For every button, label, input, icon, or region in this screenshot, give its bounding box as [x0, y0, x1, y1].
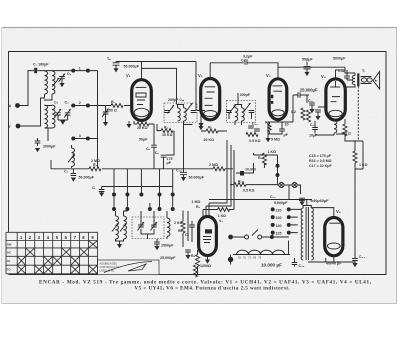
power transformer primary winding	[301, 208, 303, 260]
capacitor 2000pF	[35, 138, 56, 149]
cap C24	[292, 258, 305, 268]
wire V2 top	[210, 63, 244, 79]
T2 coil b	[242, 108, 245, 121]
cap 10000	[236, 163, 256, 176]
ground V3 cathode	[265, 134, 270, 142]
verticals bus to switch row	[114, 169, 173, 195]
tube V2	[198, 73, 220, 120]
wire T2 bottom caps	[229, 113, 252, 125]
resistor right low	[194, 265, 198, 277]
resistor second vertical	[307, 110, 311, 122]
wire V1 plate to T1	[142, 68, 177, 104]
wire transformer top	[303, 200, 311, 209]
wire switch	[233, 235, 289, 237]
wire T1 to V2	[184, 111, 206, 125]
capacitor 1500pF	[154, 239, 174, 250]
switch dot row2 b	[79, 101, 90, 107]
ground V1 cathode	[126, 121, 131, 128]
wire V1 top to bus	[141, 62, 143, 81]
T2 cap right	[244, 103, 254, 113]
resistor 1200 ohm	[191, 254, 211, 268]
capacitor 50000pF top left	[107, 57, 140, 68]
resistor 1k vertical right	[353, 151, 368, 167]
speaker cone	[373, 72, 380, 90]
cap Cn 40+60	[299, 198, 329, 206]
cap C20	[315, 110, 321, 120]
dial lamp 2	[292, 182, 297, 187]
wire bus to transformer	[345, 67, 355, 87]
wire V3 bottom	[268, 120, 293, 134]
switch dot row3 a	[71, 134, 81, 140]
capacitor 50pF	[139, 124, 157, 169]
switch dots row A	[112, 193, 175, 197]
wire row1	[75, 70, 98, 72]
switch dot row3 b	[86, 137, 90, 141]
vertical bus right of switch	[97, 71, 99, 168]
resistor 2 Mohm	[89, 159, 101, 171]
transformer tap dots col1	[271, 207, 275, 234]
wire top mid	[254, 153, 278, 168]
tap labels	[276, 208, 282, 235]
oscillator coil bottom a	[112, 216, 119, 239]
ground for C4	[59, 79, 64, 87]
coupling capacitor 3.2pF	[241, 55, 253, 65]
cap C8 with ground	[92, 186, 104, 197]
wire speaker field down	[357, 87, 359, 142]
wire T to coil L2	[20, 125, 41, 127]
resistor 20k V2	[204, 126, 219, 143]
ground V6	[205, 260, 210, 264]
wire 1k loop	[345, 136, 363, 169]
wire gang	[141, 211, 154, 239]
speaker voice coil rings	[361, 77, 373, 84]
wire taps to transformer	[291, 209, 301, 232]
resistor 1k vert mid	[258, 150, 276, 165]
trimmer C6	[64, 101, 71, 118]
wire res V2	[200, 120, 202, 126]
label 2 Mohm mid	[209, 163, 225, 171]
ground C5 C6	[58, 115, 68, 125]
IF transformer T2 box	[227, 101, 256, 123]
resistor 10 and cap uF	[271, 123, 289, 142]
variable cap CV2	[151, 222, 158, 231]
text block C15 C16 C17	[309, 154, 332, 168]
tube V5	[325, 209, 343, 256]
power transformer secondary winding	[311, 208, 313, 260]
wire long vertical to filter caps	[354, 169, 356, 258]
switch verticals rowA to rowB	[114, 196, 173, 209]
wire coil L1 bottom step	[41, 94, 53, 106]
output transformer	[352, 69, 365, 86]
T1 cap left	[164, 105, 174, 114]
tube V6 magic eye	[199, 217, 224, 256]
resistor 0.5k	[230, 180, 278, 193]
variable cap CV1	[138, 222, 145, 231]
trimmer cap to ground at V1 grid	[102, 106, 109, 127]
ground C2	[71, 178, 76, 182]
power switch	[228, 230, 274, 240]
variable arrow through L1	[53, 78, 60, 87]
junction dots mid	[276, 155, 280, 185]
B+ top bus	[116, 62, 196, 111]
wire coil L1 top	[38, 70, 74, 72]
tuning gang dashed box	[132, 217, 164, 239]
wire T2 top	[235, 93, 242, 108]
ground 2000pF	[35, 148, 40, 152]
output choke coil	[334, 119, 337, 135]
T2 coil a	[235, 108, 238, 121]
switch dots row B	[112, 207, 175, 211]
oscillator coil bottom b	[120, 216, 127, 239]
wire row2	[71, 105, 98, 107]
trimmer C4	[59, 72, 72, 82]
ground osc	[117, 244, 122, 248]
wire transformer to V4 top	[336, 70, 346, 79]
T1 coil a	[178, 108, 181, 121]
antenna coil L2 winding a	[45, 105, 48, 128]
wire L2 verticals	[41, 106, 53, 142]
tube V4	[321, 74, 345, 120]
band table	[6, 232, 98, 274]
capacitor 50000pF mid	[176, 125, 205, 182]
capacitor 10uF	[309, 121, 318, 138]
label 5000uF	[270, 195, 288, 205]
antenna terminal A	[9, 103, 20, 108]
ground cap	[113, 68, 118, 72]
scan page border left line	[1, 28, 3, 304]
schematic frame	[9, 52, 387, 275]
T1 cap right	[186, 103, 196, 113]
resistor 0.5k	[246, 133, 261, 143]
wire cap to V3	[247, 63, 345, 79]
capacitor left of V6	[185, 221, 195, 242]
wire 10k	[157, 124, 174, 155]
ballast resistance wire	[233, 250, 290, 259]
scan page border bottom line	[2, 303, 397, 305]
wire 20k	[134, 121, 154, 124]
oscillator coil with arrow	[68, 145, 75, 168]
capacitor 50pF top right	[302, 58, 313, 72]
trimmer C5	[54, 101, 61, 118]
switch section horizontal link	[102, 186, 173, 188]
transformer core	[306, 207, 308, 260]
transformer tap dots col2	[287, 207, 291, 234]
resistor 2k vertical	[174, 221, 185, 233]
dial lamp 1	[279, 182, 284, 187]
ground V2 left	[198, 115, 203, 127]
tube V3	[266, 73, 287, 120]
dot ballast	[228, 241, 289, 265]
wire lamps	[278, 185, 301, 194]
wire V4 bottom region	[315, 107, 345, 136]
antenna terminal T	[9, 124, 21, 129]
capacitor C1 180pF	[33, 63, 49, 74]
scan noise overlay	[0, 0, 1, 1]
resistor 150ohm	[107, 100, 123, 113]
wire V6 top feeds	[203, 203, 234, 218]
logo box	[98, 260, 160, 275]
AVC bus wire	[51, 160, 233, 169]
label 25000pF	[293, 88, 318, 123]
antenna coil L2 winding b	[52, 105, 55, 128]
switch dot row2 a	[71, 104, 75, 108]
wire V5 top	[311, 208, 334, 218]
wire V6 bottom	[198, 250, 208, 275]
wire A to coil	[20, 71, 35, 106]
wire 150ohm	[89, 105, 132, 107]
T1 coil b	[184, 108, 187, 121]
switch dot row1 a	[71, 69, 75, 73]
wire V5 bottom	[308, 256, 355, 262]
IF transformer T1 box	[164, 103, 197, 123]
scan page border right line	[396, 28, 398, 304]
capacitor C2 50000pF	[64, 169, 95, 180]
scan page border top line	[2, 27, 397, 29]
coil right of gang	[167, 211, 170, 239]
resistor 1M horizontal	[196, 205, 230, 218]
wire T1 top	[178, 105, 184, 108]
resistor 0.2M vertical	[291, 108, 305, 120]
switch dot row1 b	[79, 66, 90, 72]
wire row3	[73, 138, 97, 140]
caps C19	[308, 99, 315, 113]
ground 50pF	[304, 72, 309, 76]
tube V1	[126, 73, 151, 120]
caps near T2 bottom	[248, 122, 260, 131]
capacitor C9 175pF	[155, 151, 173, 165]
T2 cap left	[226, 105, 235, 114]
resistor Ra vertical	[265, 121, 271, 132]
capacitor 5000pF C18	[333, 57, 352, 81]
capacitor 40+40	[326, 255, 365, 267]
capacitor 25000pF	[160, 250, 191, 260]
resistor 20k	[137, 122, 149, 130]
verticals from T2 down to V6	[206, 140, 234, 210]
resistor 10k horizontal	[161, 126, 173, 138]
wire osc coils	[116, 211, 128, 244]
antenna coil L1 winding b	[52, 71, 55, 94]
wire 2k	[183, 211, 188, 248]
resistor 150 ohm	[341, 124, 351, 136]
wire C9 down	[163, 157, 165, 169]
wire hv bus	[209, 189, 312, 200]
antenna coil L1 winding a	[45, 71, 48, 94]
